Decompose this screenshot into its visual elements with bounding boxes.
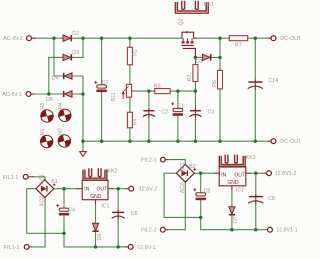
diode D2	[63, 31, 79, 42]
IC1 pin wires	[77, 189, 112, 204]
capacitor C14	[248, 78, 278, 90]
pin stub FIL1-2	[29, 246, 31, 248]
terminal FIL2-2	[141, 227, 165, 233]
ground	[80, 151, 87, 157]
heatsink KK2	[83, 168, 117, 180]
svg-text:D5: D5	[46, 97, 53, 103]
diode D3	[63, 50, 79, 61]
svg-text:H4: H4	[58, 102, 64, 109]
diode D5	[46, 91, 72, 103]
svg-text:R3: R3	[154, 83, 161, 89]
wire D4 row	[54, 75, 83, 77]
svg-text:FIL2-1: FIL2-1	[141, 158, 157, 164]
svg-text:GND: GND	[227, 180, 239, 186]
wire top rail right of R7	[248, 37, 269, 39]
svg-text:IN: IN	[221, 173, 226, 179]
junction dots top circuit	[52, 37, 55, 40]
svg-text:AC-IN-2: AC-IN-2	[3, 36, 22, 42]
resistor R2	[187, 65, 198, 82]
wire FIL1-2 to bridge B1	[31, 198, 45, 247]
svg-text:D4: D4	[52, 76, 59, 82]
capacitor C7	[94, 80, 109, 92]
terminal 12.6V-2	[129, 186, 158, 192]
diode D6	[92, 223, 102, 240]
bridge B2	[176, 162, 196, 193]
svg-text:FIL1-1: FIL1-1	[3, 175, 19, 181]
junction dots bottom rail	[81, 140, 84, 143]
capacitor C8	[248, 194, 275, 204]
hole H2	[57, 128, 72, 149]
wire D2/D3 cathode column	[82, 38, 84, 57]
wire minus column to bottom rail	[82, 94, 84, 141]
svg-text:OUT: OUT	[97, 186, 108, 192]
wire FIL2-1 to bridge B2	[167, 160, 185, 165]
diode D1	[196, 54, 211, 65]
wire top rail right of mosfet	[196, 37, 230, 39]
wire R1 R11 R4 column	[129, 38, 131, 141]
mosfet drain stub	[194, 37, 196, 39]
resistor R3	[154, 83, 170, 93]
svg-text:GND: GND	[90, 194, 102, 200]
pin stub 12.6V-1	[126, 246, 129, 248]
wire bottom rail	[83, 140, 269, 142]
svg-text:H2: H2	[58, 128, 64, 135]
pin stub 12.8V1-1	[267, 229, 269, 231]
svg-text:AC1: AC1	[40, 174, 46, 184]
pin stub AC-IN-1	[31, 93, 34, 95]
wire FIL2-2 to bridge B2	[167, 182, 185, 230]
heatsink KK1	[175, 1, 214, 13]
diode D4	[52, 73, 72, 82]
svg-text:B2: B2	[189, 164, 196, 170]
pin stub FIL2-1	[165, 159, 167, 161]
svg-text:IC1: IC1	[101, 203, 109, 209]
svg-text:12.8V1-2: 12.8V1-2	[275, 171, 297, 177]
wire C6 column	[117, 189, 119, 247]
svg-text:KK1: KK1	[204, 2, 214, 8]
svg-text:R7: R7	[235, 42, 242, 48]
svg-text:AC2: AC2	[180, 183, 186, 193]
svg-text:12.6V-2: 12.6V-2	[139, 187, 158, 193]
svg-text:12.8V1-1: 12.8V1-1	[276, 228, 298, 234]
wire B1 plus to IC1	[54, 188, 78, 190]
svg-text:FIL2-2: FIL2-2	[141, 228, 157, 234]
svg-text:AC2: AC2	[40, 196, 46, 206]
svg-text:IN: IN	[84, 186, 89, 192]
wire IC1 out to terminal	[113, 188, 127, 190]
wire B1 minus path	[27, 189, 64, 234]
svg-text:C1: C1	[178, 103, 185, 109]
svg-text:Q2: Q2	[179, 18, 185, 25]
svg-text:C7: C7	[102, 80, 109, 86]
svg-text:IC2: IC2	[236, 188, 244, 194]
mosfet Q2	[179, 18, 196, 57]
svg-text:R2: R2	[187, 75, 193, 82]
svg-text:FIL1-2: FIL1-2	[4, 245, 20, 251]
wire C4 column	[63, 189, 65, 234]
pin stub FIL2-2	[165, 229, 167, 231]
hole H1	[39, 128, 54, 149]
capacitor C3	[189, 108, 214, 118]
svg-text:H1: H1	[40, 128, 46, 135]
IC2 pin wires	[215, 173, 251, 189]
terminal 12.6V-1	[128, 245, 155, 251]
wire AC-IN-1 column	[48, 57, 50, 94]
wire C7 column	[101, 38, 103, 141]
capacitor C2	[143, 108, 168, 118]
wire R6 column	[219, 38, 221, 141]
wire AC-IN-2 column	[53, 38, 55, 76]
junction dots wiper row	[147, 89, 150, 92]
hole H3	[39, 103, 54, 124]
wire D3 row	[49, 56, 83, 58]
trimmer R11	[111, 84, 132, 101]
wire C1 column	[177, 91, 179, 141]
terminal DC-OUT-2	[271, 139, 306, 145]
terminal FIL2-1	[141, 157, 165, 163]
junction dots left regulator	[62, 187, 65, 190]
heatsink KK3	[219, 155, 255, 167]
capacitor C4	[56, 204, 75, 215]
svg-text:C8: C8	[204, 188, 211, 194]
svg-text:C8: C8	[268, 196, 275, 202]
pin stub FIL1-1	[28, 176, 33, 178]
terminal AC-IN-1	[2, 92, 31, 98]
svg-text:D6: D6	[97, 234, 103, 241]
svg-text:C4: C4	[68, 208, 75, 214]
svg-text:KK3: KK3	[246, 155, 256, 161]
wire D4/D5 anode column	[82, 76, 84, 94]
resistor R1	[127, 47, 138, 65]
svg-text:DC-OUT-2: DC-OUT-2	[280, 139, 300, 145]
svg-text:C3: C3	[208, 110, 215, 116]
svg-text:AC-IN-1: AC-IN-1	[2, 92, 21, 98]
pin stub 12.8V1-2	[264, 172, 267, 174]
svg-text:R11: R11	[111, 92, 117, 101]
svg-text:KK2: KK2	[107, 169, 117, 175]
svg-text:D7: D7	[233, 216, 239, 223]
svg-text:R6: R6	[212, 80, 218, 87]
terminal FIL1-1	[3, 174, 28, 180]
bridge B1	[36, 174, 58, 206]
wire B2 minus path	[164, 173, 201, 217]
regulator IC1	[82, 180, 109, 209]
svg-text:R4: R4	[133, 118, 139, 125]
svg-text:H3: H3	[40, 103, 46, 110]
wire IC2 out to terminal	[250, 172, 264, 174]
junction dots D1 row	[194, 56, 197, 59]
svg-text:B1: B1	[51, 179, 58, 185]
junction dots right regulator	[199, 172, 202, 175]
svg-text:DC-OUT-1: DC-OUT-1	[280, 36, 300, 42]
junction dots AC-IN-1 row	[47, 92, 50, 95]
terminal 12.8V1-2	[267, 171, 297, 177]
svg-text:12.6V-1: 12.6V-1	[137, 245, 156, 251]
resistor R4	[127, 112, 138, 128]
svg-text:C2: C2	[161, 110, 168, 116]
svg-text:D3: D3	[72, 50, 79, 56]
pin stub AC-IN-2	[31, 37, 35, 39]
svg-text:C6: C6	[131, 211, 138, 217]
svg-text:OUT: OUT	[234, 173, 245, 179]
svg-text:D2: D2	[72, 31, 79, 37]
resistor R6	[212, 70, 222, 89]
wire IC2 gnd to D7	[231, 189, 233, 229]
svg-text:C14: C14	[268, 78, 278, 84]
wire C2 column	[148, 91, 150, 141]
svg-text:AC1: AC1	[180, 162, 186, 172]
wire FIL1-1 to bridge B1	[33, 177, 45, 180]
terminal 12.8V1-1	[268, 227, 298, 233]
wire R2 C3 column	[194, 57, 196, 141]
capacitor C1	[171, 102, 184, 115]
wire wiper row R3	[131, 90, 195, 92]
wire top rail left	[35, 37, 182, 39]
wire left gnd to bottom row	[64, 233, 126, 247]
terminal AC-IN-2	[3, 36, 31, 42]
wire D1 row	[195, 56, 220, 58]
wire ground stub	[82, 141, 84, 150]
diode D7	[229, 207, 239, 223]
pin stub DC-OUT-1	[269, 37, 271, 39]
wire IC1 gnd to D6	[95, 204, 97, 247]
pin stub 12.6V-2	[126, 188, 129, 190]
capacitor C8 electrolytic	[193, 188, 210, 200]
resistor R7	[229, 36, 247, 49]
wire right gnd rail	[201, 217, 268, 229]
wire C14 column	[254, 38, 256, 141]
wire C8 column	[255, 173, 257, 230]
terminal FIL1-2	[4, 245, 29, 251]
regulator IC2	[219, 167, 246, 194]
pin stub DC-OUT-2	[269, 140, 271, 142]
capacitor C6	[112, 210, 138, 220]
wire B2 plus to IC2	[194, 172, 214, 174]
wire AC-IN-1 row	[34, 93, 83, 95]
hole H4	[57, 102, 72, 123]
wire C8 electrolytic column	[200, 173, 202, 217]
terminal DC-OUT-1	[271, 36, 306, 42]
svg-text:R1: R1	[133, 49, 139, 56]
